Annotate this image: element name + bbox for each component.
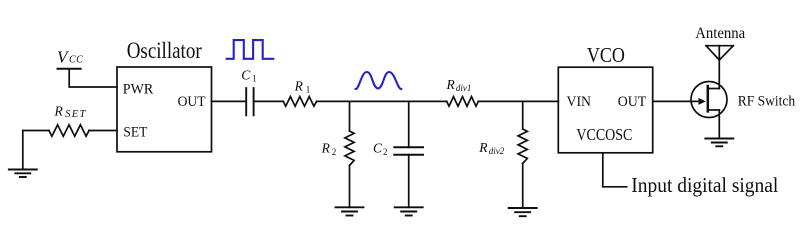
svg-text:2: 2: [332, 147, 337, 157]
wire OUT to C1: [212, 100, 246, 102]
svg-text:R: R: [321, 141, 331, 156]
svg-text:CC: CC: [69, 55, 83, 66]
svg-text:SET: SET: [123, 125, 147, 141]
svg-text:RF Switch: RF Switch: [738, 94, 796, 110]
capacitor C2: [394, 147, 423, 154]
wire R2 to ground: [349, 166, 351, 208]
wire Rdiv2 to ground: [522, 163, 524, 208]
ground G1: [9, 131, 37, 178]
svg-text:PWR: PWR: [123, 81, 154, 97]
svg-text:Antenna: Antenna: [695, 25, 745, 42]
svg-text:VCCOSC: VCCOSC: [576, 125, 632, 144]
resistor R1: [283, 97, 316, 107]
op-amp U2 VCO box: [558, 67, 652, 153]
svg-text:1: 1: [306, 84, 311, 94]
svg-text:R: R: [478, 140, 488, 155]
resistor R2: [345, 131, 354, 166]
wire VCO OUT to transistor gate: [653, 100, 700, 102]
capacitor C1: [246, 88, 253, 115]
resistor Rdiv2: [518, 129, 527, 163]
wire source to ground: [718, 110, 720, 139]
resistor RSET: [49, 125, 89, 136]
wire C2 branch: [408, 101, 410, 147]
wire Rdiv2 branch: [522, 101, 524, 129]
svg-text:R: R: [446, 77, 456, 92]
wire VCCOSC to input: [603, 153, 627, 187]
svg-text:div2: div2: [489, 146, 505, 156]
svg-text:VIN: VIN: [567, 94, 592, 110]
svg-text:Oscillator: Oscillator: [127, 38, 202, 63]
svg-text:VCO: VCO: [587, 43, 625, 67]
svg-text:C: C: [241, 67, 251, 82]
ground G4: [509, 208, 537, 216]
wire C2 to ground: [408, 155, 410, 208]
svg-text:OUT: OUT: [178, 94, 206, 110]
svg-text:2: 2: [383, 147, 388, 157]
waveform square wave: [227, 40, 274, 59]
wire Rdiv1 to VIN: [478, 100, 558, 102]
svg-text:OUT: OUT: [618, 94, 647, 110]
wire C1 to R1: [254, 100, 284, 102]
svg-text:R: R: [54, 103, 64, 118]
wire ground to RSET: [23, 130, 49, 132]
transistor Q1: [691, 82, 727, 118]
wire RSET to SET pin: [89, 130, 117, 132]
op-amp U1 Oscillator box: [117, 67, 212, 152]
ground G5: [705, 139, 733, 147]
svg-text:C: C: [373, 141, 383, 156]
node VCC terminal: [58, 68, 81, 70]
svg-text:SET: SET: [65, 109, 86, 120]
svg-text:1: 1: [252, 73, 257, 83]
wire VCC to PWR: [69, 69, 117, 87]
svg-text:Input digital signal: Input digital signal: [631, 173, 778, 197]
antenna: [706, 46, 733, 60]
ground G3: [395, 207, 423, 215]
wire R1 to Rdiv1: [317, 100, 447, 102]
svg-text:div1: div1: [456, 83, 472, 93]
wire R2 branch: [349, 101, 351, 131]
svg-text:R: R: [294, 78, 304, 93]
waveform sine wave: [356, 72, 402, 89]
wire drain to antenna: [718, 46, 720, 89]
ground G2: [336, 207, 364, 215]
resistor Rdiv1: [447, 97, 479, 107]
